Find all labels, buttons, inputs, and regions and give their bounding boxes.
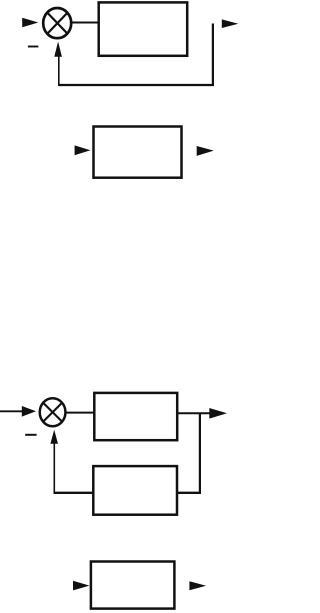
feedback vertical wire to S1 (58, 56, 60, 87)
input arrowhead (equivalent block 2) (73, 581, 90, 591)
input arrowhead (closed-loop system R input) (22, 18, 38, 28)
up arrowhead into S1 (54, 42, 62, 57)
wire takeoff to block H right side (177, 492, 201, 494)
wire block H left side to feedback riser (54, 492, 94, 494)
summing junction S2 X diagonal 2 (44, 403, 62, 421)
block H (feedback path) (93, 466, 177, 515)
summing junction S1 (43, 8, 71, 38)
input arrowhead (open-loop equivalent block) (75, 145, 91, 155)
output node vertical wire (takeoff point) (212, 24, 214, 86)
block G1 (forward path) (99, 2, 188, 55)
input arrowhead into S2 (22, 406, 36, 417)
wire S2 to block G2 (65, 412, 94, 414)
minus sign at S2 feedback input (25, 434, 36, 436)
wire S1 to block G1 (71, 22, 98, 24)
output arrowhead C2 (209, 408, 227, 419)
summing junction S2 (40, 398, 66, 426)
summing junction S2 X diagonal 1 (44, 403, 62, 421)
feedback bottom wire (59, 84, 214, 86)
block G1/(1+G1) (equivalent transfer function) (94, 127, 182, 178)
input wire R (second closed-loop system) (0, 410, 23, 412)
up arrowhead into S2 (50, 430, 58, 444)
output arrowhead (equivalent block 2) (189, 581, 206, 590)
output wire from G2 (177, 412, 210, 414)
output arrowhead C (222, 19, 239, 28)
block G2/(1+G2H) (equivalent transfer function 2) (91, 562, 174, 609)
summing junction S1 X diagonal 1 (47, 13, 67, 34)
block G2 (forward path) (94, 393, 177, 440)
takeoff vertical wire down to H block (199, 413, 201, 494)
feedback riser wire to S2 (53, 443, 55, 494)
summing junction S1 X diagonal 2 (47, 13, 67, 34)
output arrowhead (equivalent block) (197, 146, 214, 156)
minus sign at S1 feedback input (28, 46, 39, 48)
